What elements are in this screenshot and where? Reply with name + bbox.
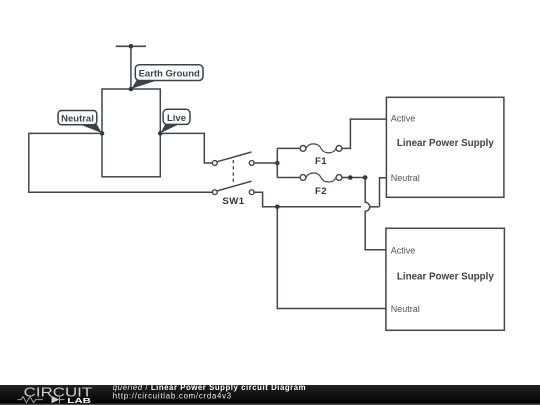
svg-text:Live: Live xyxy=(167,113,186,124)
switch SW1 gang link dashed xyxy=(232,160,234,185)
node Earth Ground pin xyxy=(129,87,134,92)
svg-text:F2: F2 xyxy=(315,186,327,197)
node Neutral pin xyxy=(100,131,105,136)
svg-text:Active: Active xyxy=(391,245,416,255)
power supply box PS2 xyxy=(386,228,505,330)
svg-text:Linear Power Supply: Linear Power Supply xyxy=(397,138,494,149)
wire neutral bus right segment xyxy=(370,206,380,208)
svg-text:Linear Power Supply: Linear Power Supply xyxy=(397,272,494,283)
svg-text:Earth Ground: Earth Ground xyxy=(139,69,200,80)
wire earth vertical xyxy=(130,46,132,89)
fuse F2 xyxy=(300,173,342,182)
wire neutral plug to SW1 xyxy=(29,133,213,192)
svg-text:F1: F1 xyxy=(315,156,327,167)
svg-text:Active: Active xyxy=(391,114,416,124)
junction node F2 out b xyxy=(363,175,368,180)
flag label Earth Ground xyxy=(131,65,203,89)
power supply box PS1 xyxy=(386,97,504,197)
wire live plug to SW1 xyxy=(160,133,212,163)
node Live pin xyxy=(158,131,163,136)
wire live split vertical xyxy=(276,148,278,177)
svg-text:LAB: LAB xyxy=(67,396,91,405)
wire to fuse F1 xyxy=(277,147,300,149)
flag label Neutral xyxy=(58,111,102,134)
AC plug outline xyxy=(102,89,160,177)
wire neutral to PS1 xyxy=(380,178,387,207)
junction node F2 out a xyxy=(348,175,353,180)
svg-text:Neutral: Neutral xyxy=(391,173,420,183)
wire SW1 pole B output xyxy=(254,192,361,207)
wire F1 to PS1 Active xyxy=(342,119,387,148)
wire to fuse F2 xyxy=(277,177,300,179)
wire neutral to PS2 xyxy=(277,207,386,309)
wire F2 to PS2 Active with hop xyxy=(365,178,386,250)
CircuitLab logo xyxy=(18,384,93,405)
wire SW1 pole A output xyxy=(254,162,277,164)
flag label Live xyxy=(161,109,190,133)
node earth top xyxy=(129,44,134,49)
wire F2 output xyxy=(342,177,365,179)
switch SW1 pole B xyxy=(212,181,254,194)
earth ground terminal bar xyxy=(116,45,146,47)
switch SW1 pole A xyxy=(212,152,254,165)
footer bar xyxy=(0,385,540,405)
svg-text:SW1: SW1 xyxy=(222,196,244,207)
junction node live split xyxy=(275,161,280,166)
fuse F1 xyxy=(300,144,342,153)
junction node neutral bus xyxy=(275,205,280,210)
svg-text:Neutral: Neutral xyxy=(61,113,94,124)
svg-text:Neutral: Neutral xyxy=(391,304,420,314)
svg-text:http://circuitlab.com/crda4v3: http://circuitlab.com/crda4v3 xyxy=(113,392,232,401)
